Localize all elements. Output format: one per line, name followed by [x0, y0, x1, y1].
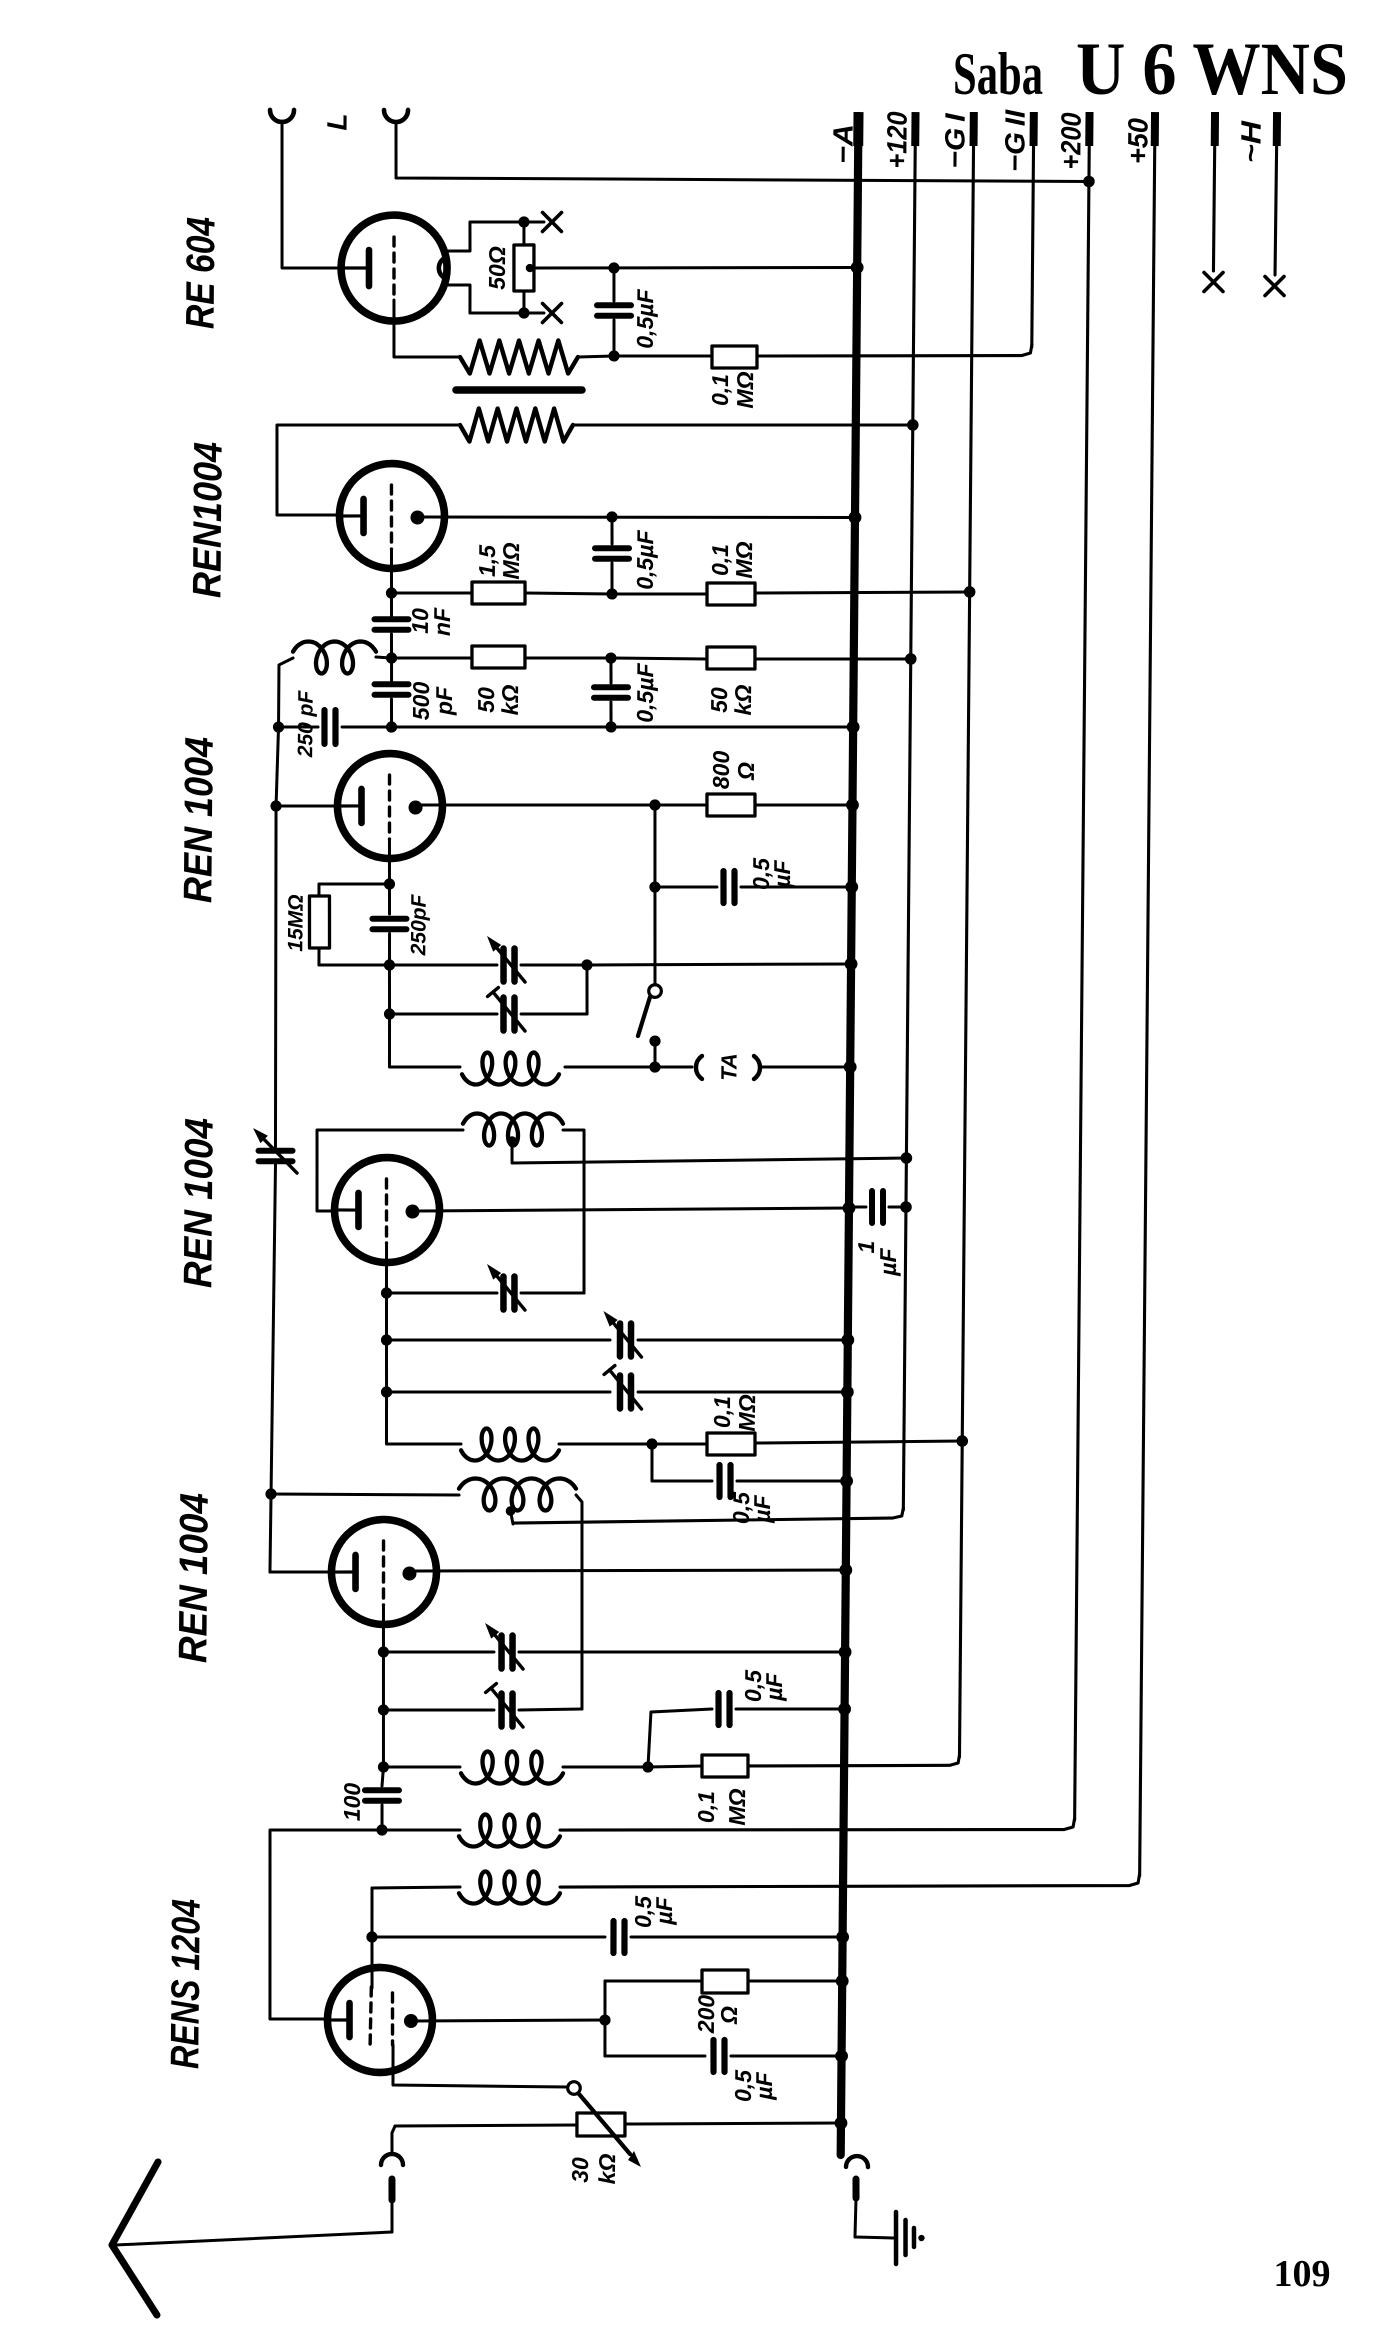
grid coil L3 with tap [463, 1113, 563, 1146]
capacitor C8 250 pF [372, 915, 406, 922]
capacitor C2 0,5uF [595, 545, 629, 552]
tube V4 REN 1004 [334, 1157, 440, 1263]
wire tube V1 bottom to speaker winding [393, 300, 460, 358]
resistor R6 50 kOhm [707, 647, 755, 670]
switch stub to row 1067 [653, 1041, 656, 1067]
junction dot row 1767 x648 [642, 1761, 653, 1772]
svg-text:U 6 WNS: U 6 WNS [1076, 28, 1348, 111]
junction dot row 1067 x655 [649, 1061, 660, 1072]
junction dot on -GI row 592 [964, 586, 976, 598]
capacitor C1 0,5uF [597, 302, 631, 309]
variable capacitor VC6 [616, 1375, 623, 1408]
junction dot row 594 x612 [606, 588, 617, 599]
x386 down to row 1340 [385, 1293, 389, 1340]
tube V6 RENS 1204 [327, 1967, 433, 2073]
junction dot row 1652 [378, 1646, 389, 1657]
anode wire V6 [413, 2018, 605, 2022]
junction dot row 727 x391 [386, 721, 397, 732]
C12 lower stem to row 1830 [380, 1805, 383, 1830]
tube V2 REN1004 [339, 463, 445, 569]
svg-text:15MΩ: 15MΩ [284, 894, 307, 951]
antenna symbol [111, 2162, 158, 2315]
wire C13 to -A [631, 1935, 843, 1939]
grid leak wire V3 bottom [388, 839, 392, 884]
wire junction to resistor R2 [614, 355, 712, 357]
anode wire V4 to -A [419, 1204, 849, 1214]
wire row 965 to tuning cap [389, 964, 497, 966]
junction dot row 1293 [381, 1287, 392, 1298]
wire x652 down to cap row 1481 [652, 1444, 713, 1482]
junction dot on -A row 1067 [844, 1060, 857, 1073]
svg-text:0,5µF: 0,5µF [632, 662, 659, 722]
junction dot on -GI row 1441 [956, 1435, 968, 1447]
grid leak row 593: wire to R3 [392, 592, 473, 593]
antenna coupling variable capacitor VC3 on rail [259, 1147, 293, 1154]
coil left tail to rail [278, 658, 293, 727]
wire VC4 to frame corner [521, 1292, 584, 1293]
junction dot row 727 x611 [605, 721, 616, 732]
svg-text:0,1: 0,1 [709, 1396, 735, 1428]
transformer primary zigzag [460, 340, 578, 375]
bus +120 [903, 116, 915, 1510]
variable capacitor VC2 [500, 998, 507, 1031]
row 1981 wire to R11 [605, 1980, 702, 1982]
wire R12 to -A bus bottom [625, 2121, 841, 2126]
row 1293 wire to VC4 [387, 1292, 498, 1294]
resistor R8 15 MOhm [309, 896, 330, 948]
ground symbol bar2 [903, 2220, 908, 2255]
switch lever arm [638, 997, 650, 1036]
junction dot on -A row 1937 [836, 1931, 849, 1944]
row 1710 wire to VC8 [383, 1709, 494, 1711]
junction dot wiper row [608, 262, 619, 273]
svg-text:~H: ~H [1235, 120, 1266, 163]
row 727 rail junction dot [273, 721, 284, 732]
anode wire V5 to -A [416, 1566, 846, 1574]
heater lead ~H right [1275, 116, 1277, 275]
junction dot row 1392 [381, 1386, 392, 1397]
rail below VC3 down to row 1494 [271, 1161, 276, 1494]
wire R9 to -GI [755, 1439, 962, 1445]
svg-text:µF: µF [749, 1494, 775, 1523]
svg-text:kΩ: kΩ [730, 684, 756, 715]
svg-text:kΩ: kΩ [497, 684, 523, 715]
junction dot on -A row 964 [845, 957, 858, 970]
wire to antenna [116, 2230, 392, 2248]
wire R3 to junction [525, 591, 612, 595]
wire rail to C6 [279, 725, 319, 729]
svg-text:50Ω: 50Ω [484, 246, 510, 290]
junction dot on -A row 1570 [839, 1564, 852, 1577]
junction dot row 1710 [378, 1704, 389, 1715]
svg-text:100: 100 [339, 1783, 365, 1822]
row 1767 wire to coil [383, 1766, 460, 1767]
coil tap dot [507, 1136, 517, 1146]
bus +50 corner to stage6 coil row 1888 [560, 1869, 1140, 1892]
variable capacitor VC5 [617, 1323, 624, 1356]
svg-text:0,1: 0,1 [707, 374, 733, 406]
junction dot on -A row 1392 [841, 1386, 854, 1399]
junction dot on +120 row 425 [907, 419, 919, 431]
row 1340 wire to VC5 [386, 1338, 610, 1342]
svg-text:0,5µF: 0,5µF [632, 288, 659, 348]
junction dot rail row 1494 [265, 1488, 276, 1499]
coil L2 detector plate coil [462, 1052, 559, 1085]
right terminal socket hook on -A bus [846, 2156, 868, 2167]
wire coil L5 right to frame [574, 1495, 584, 1709]
x383 down to row 1710 [383, 1652, 384, 1710]
wire C10 to -A [737, 1480, 847, 1482]
svg-text:0,1: 0,1 [707, 544, 733, 576]
junction dot row 965 x587 [581, 959, 592, 970]
grid wire V5 [270, 1571, 334, 1572]
wire C7 to -A [741, 886, 852, 888]
junction dot anode row x612 [606, 511, 617, 522]
left terminal pin bar [388, 2179, 395, 2200]
tube V3 REN 1004 [337, 753, 443, 859]
wire row 727 to -A [611, 725, 853, 729]
variable capacitor VC4 feedback [500, 1277, 507, 1310]
capacitor C8 250pF stem [388, 884, 392, 914]
resistor R9 0,1 MOhm [707, 1433, 755, 1456]
right terminal wire down [855, 2198, 893, 2238]
svg-text:0,1: 0,1 [693, 1791, 719, 1823]
wire from left terminal down to grid [281, 122, 343, 269]
svg-text:109: 109 [1274, 2253, 1331, 2295]
junction dot row 1014 x389 [384, 1008, 395, 1019]
filament wire bottom to X [448, 285, 524, 314]
capacitor C1 lower stem [612, 320, 616, 356]
left terminal socket hook [381, 2154, 403, 2165]
x389 vertical 965-1014 [388, 965, 392, 1014]
svg-text:kΩ: kΩ [594, 2153, 620, 2184]
wiper wire to -A bus [530, 265, 857, 271]
svg-text:Saba: Saba [953, 41, 1043, 107]
capacitor C5 500 pF [375, 681, 409, 688]
bus +200 corner to stage6 coil row 1830 [560, 1814, 1075, 1835]
bus +200 [1075, 116, 1090, 1820]
tap wire down to +120 row [510, 1511, 513, 1524]
wire junction to R4 [612, 593, 707, 595]
svg-text:µF: µF [761, 1672, 787, 1701]
capacitor C13 0,5uF [610, 1921, 617, 1953]
junction dot on -A row 1981 [836, 1975, 849, 1988]
coil row 1888 corner from x372 [370, 1888, 374, 1937]
junction dot -A bottom row 2123 [835, 2117, 848, 2130]
junction dot row 1444 x652 [646, 1438, 657, 1449]
resistor R3 1,5 MOhm [472, 582, 525, 605]
X mark heater left [1204, 273, 1223, 292]
capacitor C6 250 pF [321, 710, 328, 744]
junction dot row 965 x389 [384, 959, 395, 970]
wire VC2 to corner x587 [521, 1013, 587, 1014]
wire VC7 to -A (crosses frame) [519, 1649, 845, 1655]
svg-text:50: 50 [706, 687, 732, 713]
wire row 1830 to coil L7 [382, 1829, 460, 1830]
coil L6 interstage 2 [461, 1751, 563, 1784]
svg-text:Ω: Ω [733, 762, 759, 781]
loudspeaker terminal hook left [270, 110, 294, 122]
wire from right terminal to +200 bus [396, 122, 1090, 184]
junction dot row 1767 [378, 1761, 389, 1772]
capacitor C12 100pF stem from row 1767 [382, 1767, 383, 1786]
wire coil to switch junction [565, 1066, 655, 1067]
capacitor C11 0,5uF [715, 1693, 722, 1725]
left output terminal corner [392, 2126, 395, 2152]
wire C11 to -A [736, 1708, 845, 1710]
svg-text:−G I: −G I [939, 112, 970, 169]
x386 down to row 1392 [385, 1340, 389, 1392]
capacitor C3 10nF stem [390, 594, 393, 616]
resistor R5 50 kOhm [472, 646, 525, 669]
ground symbol bar1 [893, 2212, 898, 2264]
svg-text:MΩ: MΩ [732, 371, 758, 408]
coil L8 antenna coil 2 [459, 1871, 560, 1904]
wire secondary left to stage2 grid [276, 423, 460, 516]
junction dot on +120 row 659 [905, 653, 917, 665]
junction dot row 1937 [366, 1931, 377, 1942]
junction dot top filament [518, 216, 529, 227]
svg-text:RENS 1204: RENS 1204 [163, 1899, 208, 2069]
wire secondary right to +120 bus [573, 422, 913, 428]
wire x655 down to row 887 [654, 805, 655, 887]
row 965 wire left [319, 964, 390, 965]
capacitor C14 0,5uF [710, 2040, 717, 2072]
row 1937 wire to C13 [372, 1935, 605, 1939]
junction dot rail row 806 [270, 800, 281, 811]
svg-text:µF: µF [651, 1896, 677, 1925]
svg-text:L: L [321, 113, 352, 130]
junction dot on -A row 727 [847, 721, 860, 734]
ground symbol dot [918, 2235, 924, 2241]
capacitor C9 1uF between -A and +120 [849, 1205, 866, 1208]
svg-text:µF: µF [769, 859, 795, 888]
variable capacitor VC1 [500, 949, 507, 982]
cathode wire V5 down [382, 1605, 386, 1652]
junction dot x655 row 805 [649, 799, 660, 810]
wire C6 to junction [342, 725, 392, 729]
wire coil L6 to junction x648 [563, 1766, 648, 1767]
grid loop wire up-left of V4 [316, 1129, 463, 1213]
wire row 887 to C7 [655, 886, 717, 887]
variable capacitor VC7 [498, 1636, 505, 1669]
wire R10 to -GI corner [748, 1764, 760, 1767]
coil tap dot stage5 [506, 1506, 516, 1516]
capacitor C7 0,5uF [720, 871, 727, 903]
wire R7 to -A [755, 804, 853, 806]
wire to R8 15MOhm [319, 883, 390, 896]
resistor R11 200 Ohm [702, 1970, 748, 1994]
svg-text:µF: µF [875, 1247, 901, 1276]
row 2056 wire to C14 [605, 2055, 705, 2057]
svg-text:1,5: 1,5 [474, 544, 500, 577]
capacitor C12 100 [365, 1787, 399, 1794]
svg-text:+200: +200 [1055, 112, 1086, 170]
svg-text:800: 800 [708, 751, 734, 790]
svg-text:REN1004: REN1004 [185, 442, 230, 598]
tube V5 REN 1004 [331, 1519, 437, 1625]
junction dot row 1340 [381, 1334, 392, 1345]
wire junction to R9 [652, 1442, 707, 1446]
wire R8 bottom to row 965 [317, 948, 320, 965]
grid coil L5 of stage5 [459, 1478, 576, 1512]
wire junction to R7 [655, 803, 707, 807]
wire VC5 to -A [638, 1338, 848, 1342]
wire x587 down [585, 965, 589, 1014]
transformer core bar [456, 389, 582, 391]
wire tube V2 bottom [390, 549, 394, 594]
coil L7 antenna coil 1 [459, 1814, 560, 1847]
svg-text:REN 1004: REN 1004 [171, 1493, 216, 1663]
junction dot on +120 row 1207 [900, 1201, 912, 1213]
wire coil L3 right to frame [562, 1130, 586, 1293]
wire potentiometer bottom [522, 291, 525, 313]
svg-text:nF: nF [429, 607, 455, 636]
left rail continues down to antenna cap [273, 806, 278, 1147]
capacitor C10 0,5uF [716, 1465, 723, 1497]
bus -GI [959, 116, 973, 1757]
wire R4 to -GI bus [755, 590, 970, 595]
x383 down to coil row 1767 [381, 1710, 385, 1767]
row 1014 wire [390, 1013, 498, 1015]
junction dot on +200 [1083, 176, 1095, 188]
left rail from row 727 to grid row 806 [276, 727, 278, 806]
switch lever circle [649, 985, 662, 998]
bus +120 corner to stage5 coil tap wire [513, 1505, 903, 1527]
coil L4 interstage [461, 1428, 559, 1461]
wire row 658 to 50k resistors [392, 657, 473, 658]
junction dot on -A row 517 [849, 511, 862, 524]
wire VC8 to frame corner [519, 1708, 582, 1710]
wire coil to junction [376, 657, 392, 658]
junction dot x655 row 887 [649, 881, 660, 892]
wire row 727 mid [392, 725, 612, 729]
cathode wire V6 to volume control [393, 2045, 569, 2087]
wire x648 up to cap row 1709 [648, 1708, 712, 1767]
wire row 965 to -A (crosses switch line) [587, 962, 851, 968]
svg-text:250 pF: 250 pF [294, 689, 318, 758]
svg-text:Ω: Ω [716, 2006, 742, 2025]
filament wire top to X [448, 221, 524, 251]
junction dot on -A bus row 267 [851, 261, 864, 274]
wire VC6 to -A [638, 1390, 847, 1394]
X mark filament bottom [542, 304, 561, 323]
wire row 1830 left leg down to grid V6 [268, 1829, 382, 2020]
resistor R7 800 Ohm [707, 794, 755, 817]
svg-text:REN 1004: REN 1004 [176, 737, 221, 903]
svg-text:50: 50 [473, 687, 499, 713]
capacitor C5 500 pF stem [390, 658, 393, 681]
heater lead ~H left [1213, 116, 1215, 271]
svg-text:+120: +120 [881, 111, 912, 169]
junction dot bottom filament [518, 307, 529, 318]
junction dot on -A row 1208 [843, 1202, 856, 1215]
svg-text:pF: pF [431, 686, 457, 716]
volume switch circle [568, 2082, 581, 2095]
junction dot row 356 [608, 350, 619, 361]
bus +50 [1140, 116, 1155, 1876]
junction dot on -A row 1340 [841, 1334, 854, 1347]
rail down to grid row 1572 [270, 1494, 271, 1572]
wire junction to R6 [611, 657, 707, 661]
wire TA to -A [760, 1066, 850, 1068]
junction dot on -A row 1709 [838, 1703, 851, 1716]
row 1392 wire to VC6 [387, 1390, 611, 1394]
TA terminal arc left [696, 1056, 702, 1079]
resistor R4 0,1 MOhm [707, 583, 755, 606]
switch bottom contact dot [649, 1035, 660, 1046]
svg-text:−G II: −G II [999, 109, 1031, 173]
junction dot row 1830 [376, 1824, 387, 1835]
junction dot on -A row 1481 [840, 1475, 853, 1488]
bus -GI corner to row 1766 [748, 1753, 960, 1768]
row 1652 wire to VC7 [383, 1651, 494, 1653]
junction dot on -A row 1652 [839, 1646, 852, 1659]
wire junction to R10 [648, 1766, 702, 1768]
svg-text:RE 604: RE 604 [179, 217, 224, 329]
coil tap wire to +120 [512, 1141, 907, 1166]
x386 down to coil row 1445 [386, 1392, 461, 1445]
transformer secondary zigzag [460, 408, 573, 443]
loudspeaker terminal hook right [384, 110, 408, 122]
junction dot on +120 row 1158 [901, 1152, 913, 1164]
wire row 1067 to TA terminal [655, 1065, 692, 1069]
cathode wire V4 down [385, 1243, 389, 1293]
row 2125 wire left [395, 2123, 577, 2127]
ground symbol bar3 [912, 2228, 917, 2247]
wire C14 to -A [731, 2055, 842, 2057]
wire coil L4 to junction x652 [559, 1443, 652, 1445]
bus -GII corner to row 356 [757, 343, 1032, 359]
wire R5 to junction x611 [525, 657, 611, 658]
capacitor C4 0,5uF stem [609, 658, 613, 683]
anode wire V3 [422, 803, 655, 807]
x389 down to coil row [389, 1014, 460, 1068]
svg-text:MΩ: MΩ [724, 1788, 750, 1825]
svg-text:MΩ: MΩ [734, 1394, 760, 1431]
junction dot on -A row 887 [845, 881, 858, 894]
resistor R10 0,1 MOhm [702, 1755, 748, 1778]
wire x655 down to switch [654, 887, 656, 985]
TA terminal arc right [754, 1056, 760, 1079]
X mark filament top [542, 213, 561, 232]
junction dot on -A row 2056 [835, 2050, 848, 2063]
wire R11 to -A [748, 1980, 842, 1982]
wire R6 to +120 [755, 658, 911, 661]
coil row 1494 wire from rail [271, 1493, 459, 1495]
tube V1 RE 604 [341, 215, 448, 322]
svg-text:30: 30 [567, 2157, 593, 2183]
capacitor C1 0,5uF stem [612, 268, 616, 301]
capacitor C2 0,5uF stem [610, 517, 614, 544]
wire VC1 to junction x587 [521, 964, 587, 965]
junction dot anode row x605 [599, 2014, 610, 2025]
junction dot grid leak [384, 878, 395, 889]
capacitor C4 0,5uF [594, 684, 628, 690]
resistor R2 0,1 MOhm [712, 346, 757, 369]
right terminal pin bar [852, 2179, 859, 2198]
bus -A (thick vertical rail) [841, 116, 859, 2155]
wire filament top to potentiometer [522, 222, 525, 245]
svg-text:REN 1004: REN 1004 [176, 1118, 221, 1288]
potentiometer R1 50 Ohm [514, 245, 535, 291]
svg-text:−A: −A [827, 124, 858, 164]
screen grid wire into tube V6 [370, 1937, 374, 1988]
bus -GII [1032, 116, 1034, 347]
resistor R12 30 kOhm [577, 2113, 625, 2137]
svg-text:µF: µF [751, 2071, 777, 2100]
capacitor C3 10 nF [374, 616, 408, 623]
